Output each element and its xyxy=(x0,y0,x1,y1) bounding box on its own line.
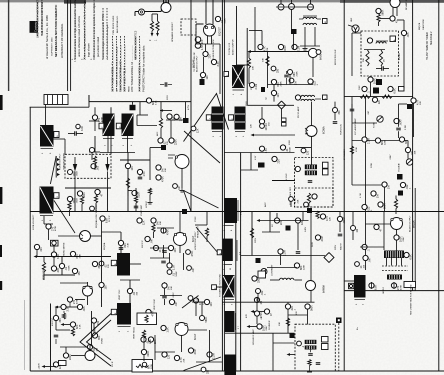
wire x91 vert xyxy=(91,311,93,346)
wire pilot right xyxy=(196,43,220,45)
callout 34 xyxy=(399,137,404,142)
svg-text:100K: 100K xyxy=(73,170,76,176)
svg-text:VERT OSC: VERT OSC xyxy=(119,289,121,300)
dashed box interlock xyxy=(181,19,196,35)
svg-text:3.3K: 3.3K xyxy=(79,253,81,258)
callout 47 xyxy=(92,261,97,266)
svg-text:6SQ7GT: 6SQ7GT xyxy=(220,26,222,36)
terminal box B24L xyxy=(217,250,221,255)
wire V8 right xyxy=(91,235,102,237)
yoke transformer T4 xyxy=(103,114,115,137)
wire y220 xyxy=(258,220,309,222)
wire x370 ext xyxy=(370,82,372,97)
svg-text:YOKE: YOKE xyxy=(102,337,104,344)
res R23 xyxy=(250,228,253,238)
diamond TP1 xyxy=(278,101,286,109)
T6 bracket xyxy=(235,131,245,133)
svg-text:1.5K: 1.5K xyxy=(166,327,169,332)
svg-text:22K: 22K xyxy=(154,339,157,344)
callout 95 xyxy=(254,297,259,302)
margin speckle 3 xyxy=(74,4,76,59)
tube V11 vert xyxy=(175,323,188,336)
wire V10 top xyxy=(89,344,91,351)
svg-text:10K: 10K xyxy=(210,302,213,307)
peaking coil L4 xyxy=(280,278,284,280)
T9 bracket xyxy=(40,215,53,217)
V8 grid marks xyxy=(80,233,83,236)
T5 bracket xyxy=(122,138,133,140)
svg-text:A PRODUCT OF GENERAL: A PRODUCT OF GENERAL xyxy=(60,23,64,58)
wire J2 drop xyxy=(45,105,47,126)
svg-text:VERT HOLD: VERT HOLD xyxy=(134,327,136,339)
wire y302 xyxy=(192,301,204,303)
callout 51 xyxy=(151,218,156,223)
wire x202 drop xyxy=(203,57,205,73)
res R25 xyxy=(126,178,129,188)
svg-text:470K: 470K xyxy=(76,298,78,304)
svg-text:68K: 68K xyxy=(147,364,150,369)
svg-text:22K: 22K xyxy=(251,124,253,128)
svg-text:1K: 1K xyxy=(199,302,202,305)
wire y291 stub xyxy=(343,291,345,293)
filter choke T13 xyxy=(354,275,366,298)
callout x8 xyxy=(271,90,276,95)
callout x7 xyxy=(141,349,146,354)
wire V2 feed a xyxy=(205,0,207,24)
callout 42 xyxy=(46,224,51,229)
flyback diagonal xyxy=(184,94,229,142)
wire x128 ho xyxy=(127,153,129,212)
margin rule 2 xyxy=(70,0,72,91)
wire M3 down xyxy=(293,34,295,49)
ratio boxes xyxy=(322,337,329,343)
divider vertical x415 xyxy=(414,188,416,291)
wire x365 drop xyxy=(365,97,367,270)
wire x48 chain xyxy=(48,229,50,240)
wire y84 xyxy=(268,84,314,86)
cap C13 xyxy=(54,334,59,336)
cap C11 xyxy=(296,251,301,253)
svg-text:2.2M: 2.2M xyxy=(212,353,215,359)
terminal box E2 xyxy=(390,36,396,42)
frame bottom border xyxy=(30,370,444,372)
svg-text:117V AC: 117V AC xyxy=(192,59,195,68)
callout 25 xyxy=(260,124,265,129)
svg-text:3.3K: 3.3K xyxy=(66,306,69,311)
svg-text:6CG7: 6CG7 xyxy=(194,333,197,340)
T4 bracket xyxy=(103,138,114,140)
page left edge blob 1 xyxy=(0,95,3,110)
dashed box tuner xyxy=(361,31,399,76)
res R26 xyxy=(42,262,45,272)
svg-text:220K: 220K xyxy=(296,71,298,77)
capacitor C2 xyxy=(74,131,76,136)
dashed speaker leads xyxy=(382,265,408,267)
capacitor C3 xyxy=(396,127,401,129)
cap C17 xyxy=(284,74,289,76)
wire T4 drop xyxy=(107,136,109,153)
callout 79 xyxy=(63,353,68,358)
callout x1 xyxy=(211,59,216,64)
svg-text:82K: 82K xyxy=(76,254,79,259)
tube pin circle c xyxy=(308,4,314,10)
frame step vertical xyxy=(88,95,90,107)
svg-text:270: 270 xyxy=(98,117,101,122)
callout s6 xyxy=(200,316,205,321)
callout x6 xyxy=(127,288,132,293)
resistor R2 leg xyxy=(157,14,159,21)
svg-text:470K: 470K xyxy=(356,147,358,152)
margin speckle 6 xyxy=(102,8,104,59)
svg-text:.0047: .0047 xyxy=(76,197,78,203)
vertical wire x273 xyxy=(272,333,274,371)
cap C12 xyxy=(119,247,124,249)
wire TP1 drop xyxy=(281,109,283,118)
divider vertical x240 xyxy=(240,153,242,372)
wire s4 xyxy=(352,212,354,226)
wire arrow 140 xyxy=(43,366,56,368)
svg-text:.005: .005 xyxy=(96,165,99,170)
cap C9 xyxy=(164,82,166,87)
svg-text:.0047: .0047 xyxy=(343,217,346,224)
svg-text:SOUND IF AMP: SOUND IF AMP xyxy=(252,329,255,345)
tone pot VR1 xyxy=(377,116,383,122)
yoke chevron 2 xyxy=(87,320,112,360)
flyback diagonal 2 xyxy=(184,131,220,163)
cap C14 xyxy=(161,260,166,262)
tube V8 horiz out xyxy=(80,231,91,242)
V4 pin marks xyxy=(305,128,308,131)
callout 57 xyxy=(167,270,172,275)
callout x11 xyxy=(363,255,368,260)
svg-text:TO PIN 3 OF: TO PIN 3 OF xyxy=(229,42,231,55)
wire T12 top xyxy=(129,280,131,303)
cap C16 xyxy=(338,233,343,235)
callout 80 xyxy=(53,362,58,367)
callout 31 xyxy=(394,118,399,123)
tube V9 vert osc xyxy=(83,286,93,296)
svg-text:470K: 470K xyxy=(260,312,263,318)
frame top horizontal mid xyxy=(89,101,191,103)
svg-text:6CG7: 6CG7 xyxy=(192,235,195,242)
svg-text:MIXER: MIXER xyxy=(399,53,401,60)
callout x12 xyxy=(355,262,360,267)
tube V7 audio out xyxy=(391,218,403,230)
notes speckle 2 xyxy=(116,36,118,91)
wire V1 feed a xyxy=(163,0,165,3)
right edge vertical xyxy=(438,0,440,371)
svg-text:.01: .01 xyxy=(286,148,289,152)
callout 100 xyxy=(297,341,302,346)
pin arrow 1 xyxy=(151,33,154,37)
T3 bracket xyxy=(41,148,54,150)
svg-text:ADC: ADC xyxy=(156,131,159,136)
T11 leads xyxy=(386,258,388,266)
svg-text:39K: 39K xyxy=(363,58,365,62)
T8 callout xyxy=(295,95,300,100)
callout 45 xyxy=(70,251,75,256)
osc box outline xyxy=(137,313,157,325)
svg-text:6CB6A: 6CB6A xyxy=(323,126,326,134)
callout 61 xyxy=(315,235,320,240)
svg-text:68K: 68K xyxy=(300,265,303,270)
bus y96 xyxy=(344,96,412,98)
tube pin circle a xyxy=(278,4,284,10)
diagonal sync 2 xyxy=(184,191,192,212)
svg-text:560K: 560K xyxy=(150,338,152,344)
svg-text:1K: 1K xyxy=(193,299,196,302)
wire pin drop a xyxy=(280,0,282,4)
wire x307 ext xyxy=(307,315,309,325)
wire y343 h xyxy=(273,342,295,344)
wire arrow y354 xyxy=(288,354,295,356)
svg-text:220K: 220K xyxy=(280,81,282,87)
callout 39 xyxy=(67,196,72,201)
IF coil L3 xyxy=(305,171,317,176)
callout 24 xyxy=(259,119,264,124)
resistor R9 xyxy=(94,195,97,203)
wire coil drops xyxy=(304,27,306,46)
interlock jack J1 xyxy=(139,9,145,15)
transformer T1 coil xyxy=(303,17,306,19)
left col rect B27 xyxy=(224,355,236,375)
ground G2 xyxy=(181,188,183,190)
svg-text:3.3K: 3.3K xyxy=(81,126,84,131)
left column rect B24 xyxy=(223,239,233,261)
svg-text:270: 270 xyxy=(397,285,400,290)
output transformer T11 xyxy=(384,251,404,259)
resistor boxes xyxy=(282,118,287,122)
callout 84 xyxy=(193,298,198,303)
frame vertical x191 xyxy=(190,0,192,212)
svg-text:.022: .022 xyxy=(367,206,370,211)
svg-text:of Howard W. Sams & Co., Inc.: of Howard W. Sams & Co., Inc. 1956 xyxy=(45,15,49,59)
svg-text:.0047: .0047 xyxy=(377,78,379,84)
svg-text:AUDIO OUTPUT: AUDIO OUTPUT xyxy=(232,39,235,55)
callout x18 xyxy=(289,197,294,202)
svg-text:10K: 10K xyxy=(165,168,167,172)
ground G3 xyxy=(149,200,151,202)
callout 49 xyxy=(132,190,137,195)
T12 bracket xyxy=(118,326,131,328)
svg-text:WIDTH: WIDTH xyxy=(341,242,343,250)
wire x196 drop xyxy=(195,303,197,316)
wire s7 xyxy=(91,153,93,161)
wire x155 vert xyxy=(154,335,156,360)
wire x56 vert xyxy=(55,307,57,330)
margin speckle 4 xyxy=(84,4,86,59)
wire y152 mid xyxy=(224,152,294,154)
callout 86 xyxy=(161,325,166,330)
wire pilot stub xyxy=(195,35,197,44)
cap C8 xyxy=(162,250,167,252)
wire T8 right xyxy=(315,98,321,100)
wire y295 h xyxy=(160,295,182,297)
callout s2 xyxy=(288,70,293,75)
wire y326 xyxy=(248,326,257,328)
svg-text:.047: .047 xyxy=(150,238,153,243)
svg-text:COPYRIGHT 1956: COPYRIGHT 1956 xyxy=(52,37,54,56)
svg-text:560K: 560K xyxy=(381,9,384,15)
wire x291 can xyxy=(290,201,292,207)
svg-text:560K: 560K xyxy=(289,146,291,152)
wire choke top xyxy=(344,280,354,282)
V6 pins xyxy=(174,233,176,235)
wire bus y302c xyxy=(222,301,314,303)
svg-text:68K: 68K xyxy=(381,140,384,145)
tuner capacitor Ca xyxy=(381,66,383,71)
svg-text:10K: 10K xyxy=(171,286,173,290)
diagonal fan 2 xyxy=(196,227,217,252)
svg-text:.005: .005 xyxy=(407,32,410,37)
svg-text:.047: .047 xyxy=(175,301,178,306)
wire V10 left xyxy=(71,355,85,357)
svg-text:.047: .047 xyxy=(178,185,181,190)
svg-text:470K: 470K xyxy=(101,116,103,122)
svg-text:22K: 22K xyxy=(329,217,331,221)
vertical wire x236 xyxy=(236,6,238,65)
ratio cap C6 xyxy=(316,362,321,364)
wire v x140 xyxy=(139,102,141,115)
svg-text:39K: 39K xyxy=(59,318,62,323)
tube V3 xyxy=(308,48,317,57)
svg-text:22K: 22K xyxy=(297,199,299,203)
wire V7 down xyxy=(396,230,398,235)
svg-text:265V: 265V xyxy=(335,244,337,250)
page left edge blob 2 xyxy=(0,187,2,204)
wire V4 up xyxy=(311,102,313,126)
callout x14 xyxy=(137,169,142,174)
callout x5 xyxy=(53,315,58,320)
svg-text:.005: .005 xyxy=(83,306,86,311)
wire s3 xyxy=(334,102,336,108)
svg-text:22K: 22K xyxy=(267,47,269,51)
resistor R10 xyxy=(68,202,71,210)
callout x15 xyxy=(59,263,64,268)
callout 90 xyxy=(174,355,179,360)
divider vertical x344 xyxy=(343,0,345,371)
svg-text:22K: 22K xyxy=(183,358,185,362)
cap C15 xyxy=(138,176,143,178)
callout 82 xyxy=(146,309,151,314)
wire x54 xyxy=(53,246,55,252)
callout s8 xyxy=(68,170,73,175)
svg-text:10K: 10K xyxy=(279,322,281,326)
wire V7 left xyxy=(366,223,391,225)
callout x3 xyxy=(118,240,123,245)
svg-text:.0022: .0022 xyxy=(173,292,175,298)
svg-text:12K: 12K xyxy=(142,220,145,225)
svg-text:.022: .022 xyxy=(261,290,264,295)
callout 36 xyxy=(400,182,405,187)
wire coil leads xyxy=(270,279,280,281)
wire x163 ext xyxy=(163,245,165,258)
callout 10 xyxy=(368,77,373,82)
svg-text:10K: 10K xyxy=(265,126,268,131)
svg-text:4.7K: 4.7K xyxy=(263,46,266,51)
wire y347 h xyxy=(60,346,87,348)
callout 69 xyxy=(394,235,399,240)
callout 56 xyxy=(167,263,172,268)
tube V6 sync sep xyxy=(174,233,187,246)
svg-text:3.3K: 3.3K xyxy=(127,242,129,247)
callout 15 xyxy=(91,164,96,169)
svg-text:4.7K: 4.7K xyxy=(416,100,419,105)
dashed box ratio det xyxy=(295,324,335,371)
svg-text:68K: 68K xyxy=(277,82,280,87)
svg-text:220K: 220K xyxy=(303,264,305,270)
wire x408 vol xyxy=(407,141,409,159)
column line x235 xyxy=(235,198,237,371)
callout s3 xyxy=(333,108,338,113)
svg-text:39K: 39K xyxy=(179,117,182,122)
svg-text:.02: .02 xyxy=(163,141,166,145)
svg-text:.02: .02 xyxy=(133,291,136,295)
callout 74 xyxy=(77,304,82,309)
callout 71 xyxy=(404,252,409,257)
svg-text:.047: .047 xyxy=(192,267,195,272)
callout top18 xyxy=(215,16,220,21)
frame left vertical xyxy=(29,107,31,371)
svg-text:SPEAKER SOCKET: SPEAKER SOCKET xyxy=(171,21,174,42)
callout 91 xyxy=(188,348,193,353)
svg-text:22K: 22K xyxy=(40,247,43,252)
callout 8 xyxy=(376,8,381,13)
wire y283 h xyxy=(60,282,88,284)
IF transformer T7 xyxy=(212,107,224,130)
resistor R7 xyxy=(382,95,392,98)
svg-text:1ST AUDIO AMP: 1ST AUDIO AMP xyxy=(354,118,357,135)
callout f2 xyxy=(187,266,192,271)
tiny marks xyxy=(168,154,175,156)
wire x262 up xyxy=(261,31,263,45)
bus horizontal y211 xyxy=(30,211,444,213)
T13 bracket xyxy=(355,299,366,301)
svg-text:100K: 100K xyxy=(73,197,76,203)
wire T10 top xyxy=(120,232,122,253)
callout 97 xyxy=(305,304,310,309)
T2 bracket xyxy=(233,89,245,91)
V11 pins xyxy=(176,323,178,325)
svg-text:SEE OTHER SIDE FOR BOARD: SEE OTHER SIDE FOR BOARD xyxy=(410,284,413,315)
wire speaker to jack xyxy=(135,11,161,13)
svg-text:1M: 1M xyxy=(356,229,359,232)
wire x164 drop xyxy=(164,282,166,283)
wire x340 xyxy=(339,212,341,217)
notes speckle 1 xyxy=(112,36,114,91)
svg-text:330: 330 xyxy=(338,110,341,115)
wire M17 feed xyxy=(241,169,258,171)
wire x50 vert xyxy=(50,304,52,372)
IF can circle L xyxy=(295,166,300,171)
bracket B25b xyxy=(224,299,235,301)
svg-text:270: 270 xyxy=(73,299,76,304)
svg-text:2.2M: 2.2M xyxy=(297,46,300,52)
callout 89 xyxy=(162,352,167,357)
svg-text:82K: 82K xyxy=(124,243,127,248)
black square M13 xyxy=(183,118,189,123)
callout f1 xyxy=(186,250,191,255)
svg-text:10K: 10K xyxy=(253,66,255,70)
svg-text:6.8K: 6.8K xyxy=(374,285,377,290)
vert transformer T12 xyxy=(117,303,131,325)
callout 64 xyxy=(252,276,257,281)
svg-text:560K: 560K xyxy=(176,271,178,277)
left column rect B25 xyxy=(223,275,235,297)
ratio coil L7 xyxy=(305,346,317,350)
diode D2 xyxy=(105,164,109,172)
callout 92 xyxy=(207,352,212,357)
